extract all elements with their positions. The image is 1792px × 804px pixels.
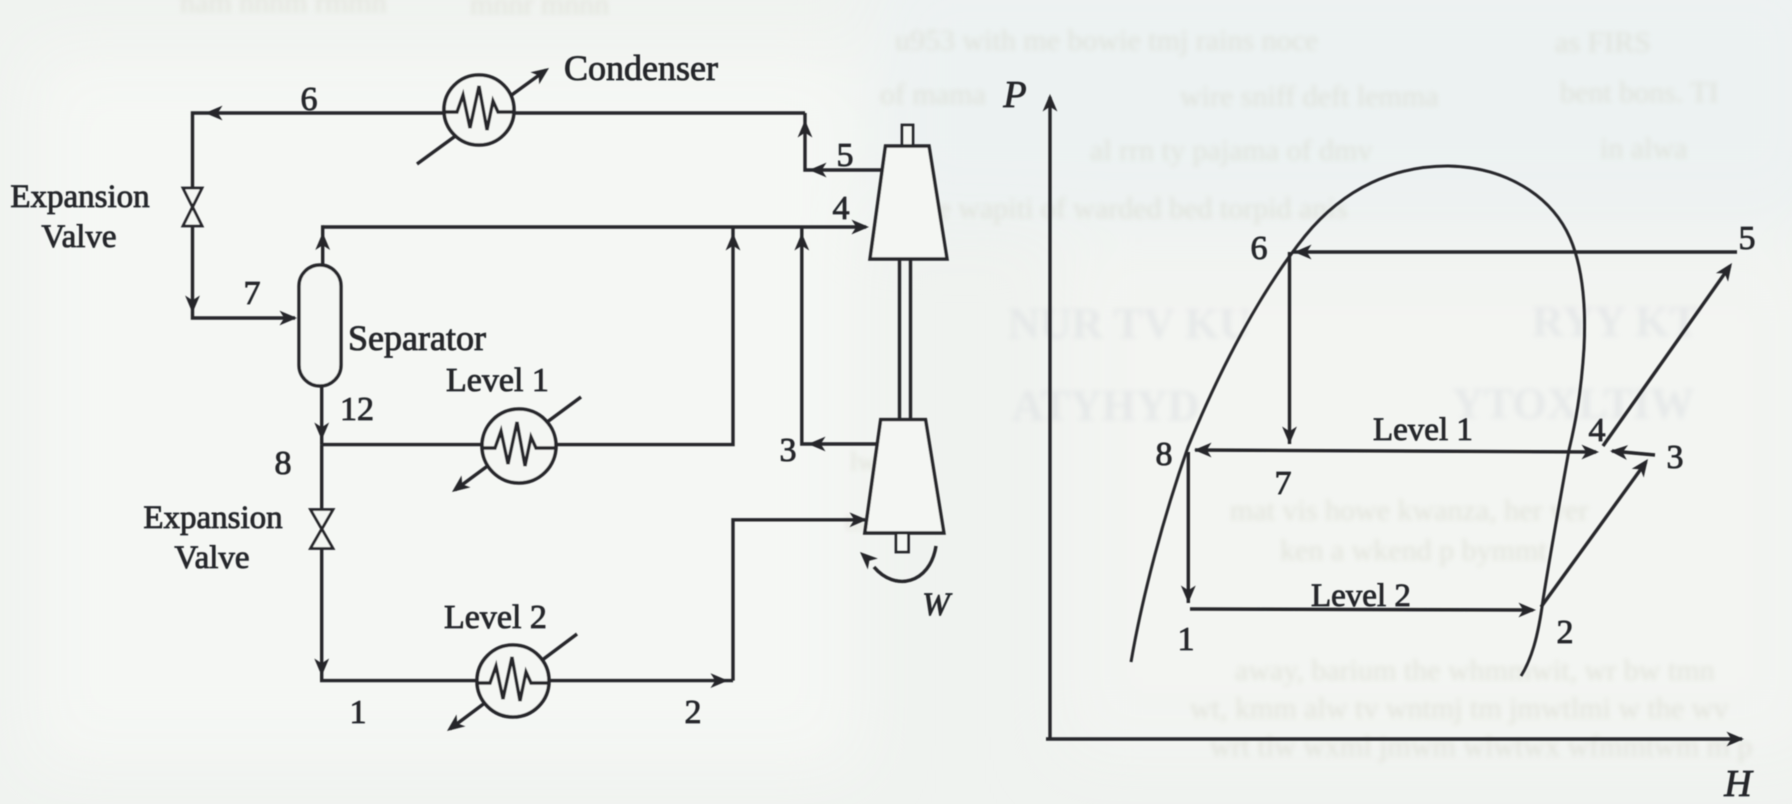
svg-text:5: 5: [837, 137, 854, 174]
svg-text:u953 with me bowie tmj rains n: u953 with me bowie tmj rains noce: [895, 24, 1318, 57]
process line 3 to 4 short arrow: [1612, 451, 1655, 455]
svg-text:Expansion: Expansion: [10, 179, 149, 215]
svg-text:Expansion: Expansion: [143, 500, 282, 536]
svg-text:2: 2: [1557, 614, 1574, 651]
Level 2 exchanger circle: [477, 645, 549, 717]
svg-text:in alwa: in alwa: [1600, 132, 1687, 165]
wire: stream 1 down to Level 2 line corner: [322, 548, 733, 681]
node label 1: [350, 694, 367, 731]
svg-text:8: 8: [1156, 436, 1173, 473]
svg-text:7: 7: [244, 275, 261, 312]
process line 6 to 7: [1288, 252, 1291, 444]
wire: junction down to expansion valve 2: [320, 445, 323, 510]
svg-text:W: W: [922, 587, 952, 623]
svg-text:nam nnnm rmmn: nam nnnm rmmn: [180, 0, 387, 19]
wire: stream 3 from LP compressor, left then up to line 4: [802, 227, 877, 444]
expansion valve V2: [311, 510, 334, 549]
wire: stream 2 riser into LP compressor: [733, 520, 865, 681]
svg-text:Valve: Valve: [41, 219, 116, 255]
condenser zigzag: [444, 86, 514, 130]
point label 4: [1589, 412, 1606, 449]
expansion valve V1: [183, 188, 202, 226]
point label 5: [1739, 220, 1756, 257]
process line 8 to 1: [1187, 452, 1190, 603]
svg-text:Level 1: Level 1: [446, 362, 549, 399]
svg-text:NUR TV KU: NUR TV KU: [1008, 299, 1251, 348]
svg-text:Separator: Separator: [348, 318, 486, 358]
node label 7: [244, 275, 261, 312]
svg-text:al rrn ty pajama of dmv: al rrn ty pajama of dmv: [1090, 134, 1372, 167]
svg-text:1: 1: [350, 694, 367, 731]
arrow on line 6 pointing left: [205, 106, 223, 121]
svg-text:as FIRS: as FIRS: [1555, 26, 1651, 59]
svg-text:3: 3: [1667, 439, 1684, 476]
svg-text:2: 2: [685, 694, 702, 731]
HP compressor (top): [870, 125, 947, 259]
svg-text:6: 6: [301, 81, 318, 118]
condenser heat arrow: [417, 70, 546, 164]
arrow on stream 5 pointing left: [809, 163, 827, 178]
process line 2 to 3 compression: [1541, 462, 1646, 607]
node label 5: [837, 137, 854, 174]
Level 1 exchanger circle: [482, 409, 556, 483]
svg-text:at the wapiti of warded bed to: at the wapiti of warded bed torpid anis: [885, 192, 1347, 225]
node label 2: [685, 694, 702, 731]
Level 2 heat arrow: [450, 634, 577, 729]
svg-text:3: 3: [780, 432, 797, 469]
label Condenser: [564, 48, 718, 88]
svg-text:ken a wkend p bymmt: ken a wkend p bymmt: [1280, 534, 1547, 567]
P axis: [1048, 97, 1051, 739]
label Level 1: [446, 362, 549, 399]
svg-text:YTOXLTIW: YTOXLTIW: [1452, 379, 1694, 428]
svg-text:wrt tlw wxml jmwm wlwtwx wfmmt: wrt tlw wxml jmwm wlwtwx wfmmtwm m p: [1210, 730, 1753, 763]
compressor shaft: [900, 259, 911, 420]
process line 5 to 6: [1292, 250, 1737, 253]
process line Level 1 (8 to 4) double arrow: [1195, 450, 1596, 452]
axis label P: [1002, 74, 1026, 116]
label Level 2 (chart): [1311, 578, 1411, 614]
point label 1: [1178, 621, 1195, 658]
wire: Level 1 line from junction 8 to riser, up to line 4: [322, 227, 733, 445]
Level 2 zigzag: [477, 657, 549, 701]
wire: condenser line 6 with corner down to expansion valve 1: [193, 113, 806, 188]
label Separator: [348, 318, 486, 358]
label Expansion Valve (V2): [143, 500, 282, 576]
svg-text:ATYHYD: ATYHYD: [1012, 381, 1199, 430]
svg-text:Condenser: Condenser: [564, 48, 718, 88]
svg-text:away, barium the whmmwit, wr b: away, barium the whmmwit, wr bw tmn: [1235, 654, 1715, 687]
point label 3: [1667, 439, 1684, 476]
point label 7: [1275, 465, 1292, 502]
svg-text:of mama: of mama: [880, 78, 986, 111]
svg-text:mnnr mnnn: mnnr mnnn: [470, 0, 609, 21]
axis label H: [1723, 763, 1754, 804]
wire: stream 7 from valve 1 down then right into separator: [193, 226, 296, 318]
svg-text:4: 4: [833, 190, 850, 227]
svg-text:8: 8: [275, 445, 292, 482]
separator vessel: [299, 265, 341, 386]
svg-text:Level 1: Level 1: [1373, 412, 1473, 448]
wire: line 4 to HP compressor: [323, 225, 866, 228]
node label 8: [275, 445, 292, 482]
svg-text:P: P: [1002, 74, 1026, 116]
label Expansion Valve (V1): [10, 179, 149, 255]
svg-text:12: 12: [340, 391, 374, 428]
arrow up into line 6: [798, 120, 813, 138]
svg-text:Level 2: Level 2: [1311, 578, 1411, 614]
LP compressor (bottom): [865, 420, 944, 552]
arrow on Level 2 line before corner: [711, 673, 729, 688]
node label 3: [780, 432, 797, 469]
node label 12: [340, 391, 374, 428]
svg-text:6: 6: [1251, 230, 1268, 267]
svg-text:bent bons. TI: bent bons. TI: [1560, 76, 1719, 109]
svg-text:Level 2: Level 2: [444, 599, 547, 636]
point label 8: [1156, 436, 1173, 473]
svg-text:7: 7: [1275, 465, 1292, 502]
svg-text:wt, kmm alw tv wntmj tm jmwtlm: wt, kmm alw tv wntmj tm jmwtlmi w the wv: [1190, 692, 1728, 725]
saturation dome: [1131, 166, 1585, 676]
condenser circle C1: [444, 75, 514, 145]
H axis: [1046, 737, 1742, 740]
label Level 1 (chart): [1373, 412, 1473, 448]
svg-text:wire sniff deft lemma: wire sniff deft lemma: [1180, 80, 1439, 113]
label Level 2: [444, 599, 547, 636]
point label 6: [1251, 230, 1268, 267]
label W: [922, 587, 952, 623]
svg-text:Valve: Valve: [174, 540, 249, 576]
Level 1 zigzag: [482, 422, 556, 466]
process line 4 to 5 compression: [1603, 266, 1730, 446]
svg-text:H: H: [1723, 763, 1754, 804]
point label 2: [1557, 614, 1574, 651]
svg-text:1: 1: [1178, 621, 1195, 658]
Level 1 heat arrow: [455, 397, 581, 490]
node label 6: [301, 81, 318, 118]
svg-text:5: 5: [1739, 220, 1756, 257]
node label 4: [833, 190, 850, 227]
wire: stream 12 from separator bottom to junction 8: [320, 386, 323, 445]
W drive arc arrow: [874, 546, 936, 581]
process line Level 2 (1 to 2): [1190, 609, 1533, 610]
svg-text:RYY KT: RYY KT: [1532, 297, 1699, 346]
wire: stream 5 from HP compressor with corner up to line 6: [805, 113, 882, 170]
wire: separator vapor line up to line 4: [323, 227, 324, 265]
